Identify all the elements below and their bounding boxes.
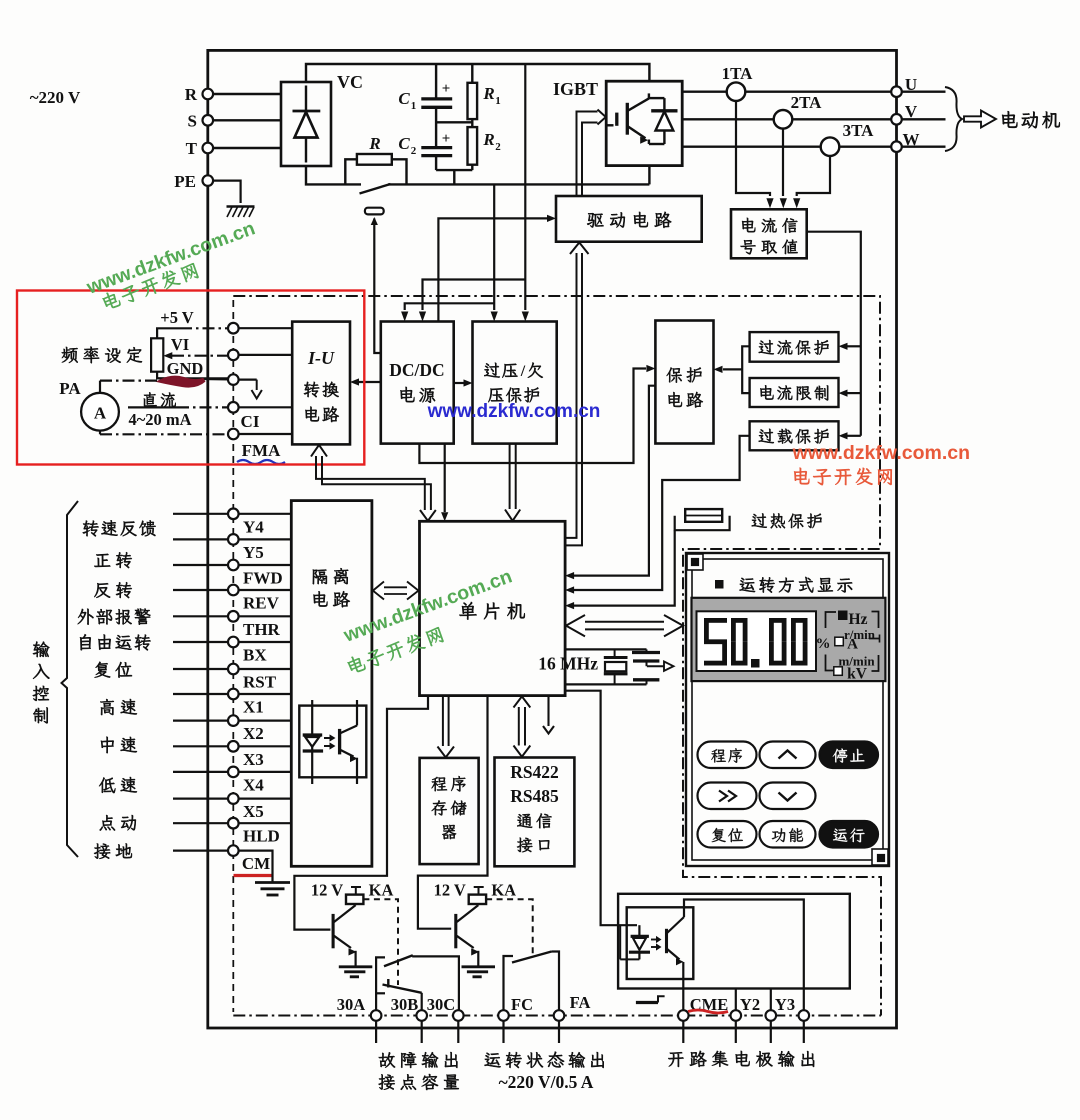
chassis contact symbol — [636, 1001, 658, 1004]
arrow to motor — [964, 111, 996, 128]
contact 30B — [387, 979, 389, 988]
svg-text:www.dzkfw.com.cn: www.dzkfw.com.cn — [792, 442, 970, 464]
ground — [462, 965, 496, 968]
block isolation circuit — [291, 501, 372, 867]
block program memory — [420, 758, 479, 864]
wire relay drive — [418, 696, 488, 929]
block overcurrent protection — [750, 332, 839, 362]
svg-text:FWD: FWD — [243, 569, 283, 588]
wire meter bottom to FMA — [99, 431, 101, 435]
svg-text:T: T — [186, 139, 198, 158]
terminal GND — [228, 374, 239, 385]
wire terminal stub — [770, 1021, 772, 1043]
FMA blue underline — [237, 460, 285, 464]
wire +5V — [157, 328, 180, 338]
button function — [760, 821, 816, 848]
wire I-U to MCU (bidirectional) — [316, 456, 425, 510]
thermal protector — [675, 516, 730, 531]
svg-text:PE: PE — [174, 172, 196, 191]
button up — [760, 742, 816, 769]
IGBT freewheel diode — [651, 98, 677, 144]
label 自由运转 — [80, 634, 151, 650]
svg-text:R: R — [482, 84, 494, 103]
wire — [902, 145, 946, 147]
wire — [173, 745, 228, 747]
ground symbol CM — [255, 881, 290, 884]
terminal CI — [228, 402, 239, 413]
wire — [173, 589, 228, 591]
svg-text:1: 1 — [411, 100, 417, 112]
wire terminal stub — [375, 1021, 377, 1043]
current transformer 2TA — [774, 110, 793, 129]
terminal X4 — [228, 767, 239, 778]
wire — [173, 564, 228, 566]
wire — [173, 797, 228, 799]
terminal CM — [228, 845, 239, 856]
terminal X5 — [228, 793, 239, 804]
svg-text:%: % — [816, 636, 831, 652]
svg-text:RST: RST — [243, 673, 277, 692]
svg-text:PA: PA — [59, 379, 81, 398]
svg-text:12 V: 12 V — [434, 881, 466, 900]
svg-text:BX: BX — [243, 646, 267, 665]
wire contactor actuate — [373, 219, 375, 233]
panel title — [716, 581, 724, 589]
svg-text:GND: GND — [167, 359, 204, 378]
svg-text:FMA: FMA — [242, 441, 281, 460]
svg-text:REV: REV — [243, 594, 280, 613]
capacitor C1 — [435, 64, 437, 98]
svg-text:W: W — [903, 130, 920, 149]
terminal RST — [228, 664, 239, 675]
GND red scribble — [162, 378, 204, 386]
label frequency set — [62, 347, 142, 364]
wire CM to ground — [239, 851, 273, 882]
wire terminal stub — [803, 1021, 805, 1043]
svg-text:VI: VI — [171, 335, 189, 354]
svg-text:KA: KA — [491, 881, 516, 900]
wire — [213, 119, 281, 121]
svg-text:+: + — [442, 81, 451, 97]
svg-text:2: 2 — [495, 141, 501, 153]
svg-text:X3: X3 — [243, 750, 264, 769]
label 转速反馈 — [83, 520, 156, 536]
label motor — [1002, 111, 1060, 128]
wire — [239, 327, 293, 329]
svg-text:30A: 30A — [337, 995, 366, 1014]
svg-text:KA: KA — [369, 881, 394, 900]
label input control (vertical) — [33, 642, 50, 658]
arrow aux output — [547, 696, 549, 726]
wire — [239, 354, 293, 356]
svg-text:R: R — [482, 130, 494, 149]
wire terminal stub — [502, 1021, 504, 1043]
wire terminal stub — [457, 1021, 459, 1043]
corner mark TL — [687, 554, 703, 570]
svg-text:2: 2 — [411, 145, 417, 157]
current transformer 3TA — [821, 137, 840, 156]
terminal Y2 — [731, 1010, 742, 1021]
svg-text:+: + — [442, 131, 451, 147]
wire DCDC supply to protection — [419, 369, 646, 464]
svg-text:2TA: 2TA — [791, 93, 823, 112]
outer enclosure frame — [208, 50, 897, 1028]
terminal BX — [228, 637, 239, 648]
label 接地 — [94, 843, 132, 858]
svg-text:30B: 30B — [391, 995, 419, 1014]
terminal V — [891, 114, 902, 125]
wire — [173, 641, 228, 643]
label 反转 — [94, 582, 132, 598]
svg-text:Y2: Y2 — [740, 995, 760, 1014]
LCD unit labels — [816, 611, 880, 683]
brace motor — [945, 87, 962, 151]
svg-text:Hz: Hz — [849, 611, 868, 628]
svg-text:4~20 mA: 4~20 mA — [128, 410, 191, 429]
label 正转 — [94, 552, 132, 568]
svg-text:3TA: 3TA — [843, 121, 875, 140]
svg-text:RS422: RS422 — [510, 762, 559, 782]
output optocoupler U4 — [627, 907, 694, 979]
wire bottom junction — [436, 169, 472, 171]
terminal 30B — [416, 1010, 427, 1021]
svg-text:X5: X5 — [243, 802, 264, 821]
svg-text:1: 1 — [495, 95, 501, 107]
wire gate drive — [577, 112, 598, 197]
button stop — [820, 742, 879, 769]
wire to protections — [807, 232, 861, 436]
svg-text:C: C — [398, 89, 410, 108]
terminal CME — [678, 1010, 689, 1021]
terminal THR — [228, 611, 239, 622]
CME red underline — [688, 1010, 728, 1013]
red highlight rectangle — [17, 291, 364, 465]
svg-text:Y3: Y3 — [775, 995, 795, 1014]
terminal FMA — [228, 429, 239, 440]
open collector enclosure — [618, 894, 850, 989]
label open collector output — [668, 1051, 814, 1067]
svg-text:X4: X4 — [243, 775, 264, 794]
wire overload to MCU — [574, 436, 750, 590]
label 高速 — [100, 699, 137, 715]
wire CT sense 2 — [782, 129, 784, 196]
terminal W — [891, 141, 902, 152]
label overheat protection — [752, 513, 822, 528]
wire — [173, 849, 228, 851]
wire — [213, 181, 241, 203]
optocoupler U3 — [299, 706, 366, 778]
block I-U converter — [292, 322, 350, 445]
relay coil KA — [346, 895, 363, 904]
transistor Q — [333, 904, 356, 966]
svg-text:~220 V: ~220 V — [30, 88, 81, 107]
wire — [239, 433, 293, 435]
wire GND — [157, 372, 228, 379]
wire oc/cl to protection — [742, 346, 749, 393]
wire — [173, 668, 228, 670]
wire phase U — [682, 90, 891, 92]
LCD digits 50.00 — [704, 618, 808, 668]
button run — [820, 821, 879, 848]
IGBT module U2 — [606, 81, 682, 165]
wire MCU to drive (gate enable) — [565, 253, 576, 538]
svg-text:VC: VC — [337, 72, 363, 92]
svg-text:HLD: HLD — [243, 827, 280, 846]
svg-text:IGBT: IGBT — [553, 79, 598, 99]
wire DCDC to OVUV — [454, 382, 464, 384]
wire opto collector to terminal — [684, 900, 804, 1011]
transistor Q — [456, 904, 479, 966]
resistor R2 — [471, 119, 473, 127]
svg-text:Y4: Y4 — [243, 517, 264, 536]
wire phase V — [682, 118, 891, 120]
arrow MCU to program memory — [443, 696, 449, 746]
wiper arrow — [172, 355, 228, 357]
terminal 30C — [453, 1010, 464, 1021]
terminal HLD — [228, 818, 239, 829]
label run status output — [485, 1052, 604, 1068]
svg-text:R: R — [185, 85, 198, 104]
potentiometer — [151, 338, 163, 371]
wire phase W — [682, 145, 891, 147]
wire MCU to opto — [566, 691, 637, 926]
svg-text:CM: CM — [242, 854, 270, 873]
resistor R (precharge) — [345, 159, 357, 184]
IGBT transistor symbol — [606, 93, 664, 144]
wire DC- bus — [306, 166, 361, 184]
rectifier bridge VC — [281, 82, 331, 166]
block DC/DC power — [381, 322, 454, 444]
wire thermal to MCU — [574, 530, 675, 605]
contact 30A-30C — [376, 957, 385, 1010]
CM red underline — [234, 874, 273, 877]
terminal VI — [228, 350, 239, 361]
label 复位 — [94, 662, 132, 678]
terminal FA — [554, 1010, 565, 1021]
svg-text:~220 V/0.5 A: ~220 V/0.5 A — [499, 1072, 594, 1092]
svg-text:A: A — [94, 404, 107, 423]
svg-text:S: S — [188, 111, 197, 130]
relay KA link (dashed) — [363, 899, 398, 985]
supply tick — [355, 887, 357, 895]
svg-text:DC/DC: DC/DC — [389, 360, 444, 380]
wire CT sense 1 — [736, 101, 770, 196]
terminal REV — [228, 585, 239, 596]
terminal X3 — [228, 741, 239, 752]
svg-text:THR: THR — [243, 620, 281, 639]
wire protection to MCU — [574, 386, 655, 576]
svg-text:X2: X2 — [243, 724, 264, 743]
wire midpoint junction — [436, 121, 472, 123]
wire — [173, 822, 228, 824]
svg-text:U: U — [905, 75, 917, 94]
label DC 4-20mA — [144, 392, 176, 407]
terminal FC — [498, 1010, 509, 1021]
signal ground arrow — [256, 380, 258, 390]
ammeter PA — [81, 393, 119, 431]
button reset — [698, 821, 757, 848]
block drive circuit — [556, 196, 702, 242]
wire opto emitter to CME — [682, 962, 684, 1010]
resistor R1 — [471, 64, 473, 83]
terminal FWD — [228, 560, 239, 571]
svg-text:I-U: I-U — [307, 348, 335, 368]
operator panel frame — [686, 553, 889, 866]
crystal 16MHz — [565, 649, 673, 684]
svg-text:RS485: RS485 — [510, 786, 559, 806]
block overload protection — [750, 421, 839, 450]
svg-text:kV: kV — [847, 666, 868, 683]
block current signal acquisition — [731, 209, 807, 258]
arrow MCU to display panel — [566, 615, 683, 636]
terminal 30A — [371, 1010, 382, 1021]
wire — [173, 771, 228, 773]
wire terminal stub — [558, 1021, 560, 1043]
wire — [173, 615, 228, 617]
svg-text:/: / — [520, 363, 526, 380]
supply tick — [478, 887, 480, 895]
capacitor C2 — [435, 107, 437, 147]
relay KA link 2 (dashed) — [486, 899, 533, 955]
charge switch blade — [360, 184, 391, 194]
button program — [698, 742, 757, 769]
wire OVUV to MCU — [509, 444, 511, 509]
terminal X1 — [228, 689, 239, 700]
svg-text:FC: FC — [511, 995, 533, 1014]
svg-text:1TA: 1TA — [722, 64, 754, 83]
wire CT sense 3 — [797, 156, 830, 196]
svg-text:A: A — [847, 637, 858, 653]
wire bus to DCDC 2 — [405, 303, 495, 310]
wire — [902, 118, 946, 120]
wire meter top — [99, 381, 101, 393]
wire — [902, 90, 946, 92]
svg-text:X1: X1 — [243, 698, 264, 717]
wire DCDC to IU — [358, 381, 381, 383]
arrow isolation to MCU — [373, 582, 419, 600]
wire DC/DC to MCU — [444, 444, 446, 512]
wire Y2 — [735, 989, 737, 1011]
svg-text:CI: CI — [241, 412, 260, 431]
ground — [339, 965, 373, 968]
wire — [173, 538, 228, 540]
block over/under voltage protection — [473, 322, 557, 444]
terminal U — [891, 86, 902, 97]
wire DC/DC to drive — [438, 218, 547, 321]
control board boundary (dash-dot) — [233, 296, 881, 1016]
block microcontroller MCU — [420, 521, 566, 695]
wire — [173, 693, 228, 695]
wire bus to OVUV 2 — [524, 64, 526, 310]
LCD display window — [697, 611, 817, 671]
wire terminal stub — [421, 1021, 423, 1043]
current transformer 1TA — [727, 82, 746, 101]
arrow MCU-RS comm (bidirectional) — [514, 696, 531, 756]
terminal Y5 — [228, 534, 239, 545]
label 低速 — [99, 777, 137, 793]
wire terminal stub — [735, 1021, 737, 1043]
wire — [173, 719, 228, 721]
block protection circuit — [655, 321, 713, 444]
svg-text:FA: FA — [570, 993, 591, 1012]
block RS422/RS485 comm — [495, 758, 575, 867]
contact FC-FA — [504, 956, 514, 1010]
label fault output — [379, 1052, 458, 1068]
button shift — [698, 783, 757, 810]
svg-text:12 V: 12 V — [311, 881, 343, 900]
earth ground — [227, 207, 255, 218]
label 点动 — [100, 815, 136, 831]
LCD bezel — [692, 598, 886, 681]
wire relay drive — [294, 696, 428, 930]
terminal X2 — [228, 715, 239, 726]
svg-text:16 MHz: 16 MHz — [538, 654, 598, 674]
svg-text:V: V — [905, 102, 918, 121]
label 中速 — [101, 737, 137, 753]
terminal aux — [799, 1010, 810, 1021]
svg-text:www.dzkfw.com.cn: www.dzkfw.com.cn — [427, 401, 601, 422]
label 外部报警 — [78, 608, 151, 624]
corner mark BR — [872, 849, 888, 865]
contactor coil — [365, 208, 384, 215]
wire — [213, 147, 281, 149]
terminal Y3 — [766, 1010, 777, 1021]
svg-text:C: C — [398, 134, 410, 153]
svg-text:+5 V: +5 V — [160, 308, 193, 327]
terminal +5V — [228, 323, 239, 334]
svg-text:R: R — [368, 134, 380, 153]
button down — [760, 783, 816, 810]
svg-text:30C: 30C — [427, 995, 455, 1014]
wire terminal stub — [682, 1021, 684, 1043]
relay coil KA — [469, 895, 486, 904]
wire bus to OVUV 1 — [493, 184, 495, 310]
svg-text:Y5: Y5 — [243, 543, 264, 562]
terminal Y4 — [228, 509, 239, 520]
wire bus to DCDC 1 — [423, 280, 526, 311]
block current limit — [750, 378, 839, 407]
wire — [173, 513, 228, 515]
input group brace — [62, 501, 79, 857]
wire — [213, 93, 281, 95]
wire DC+ bus — [306, 64, 649, 82]
wire — [239, 406, 293, 408]
wire Y3 — [770, 989, 772, 1011]
